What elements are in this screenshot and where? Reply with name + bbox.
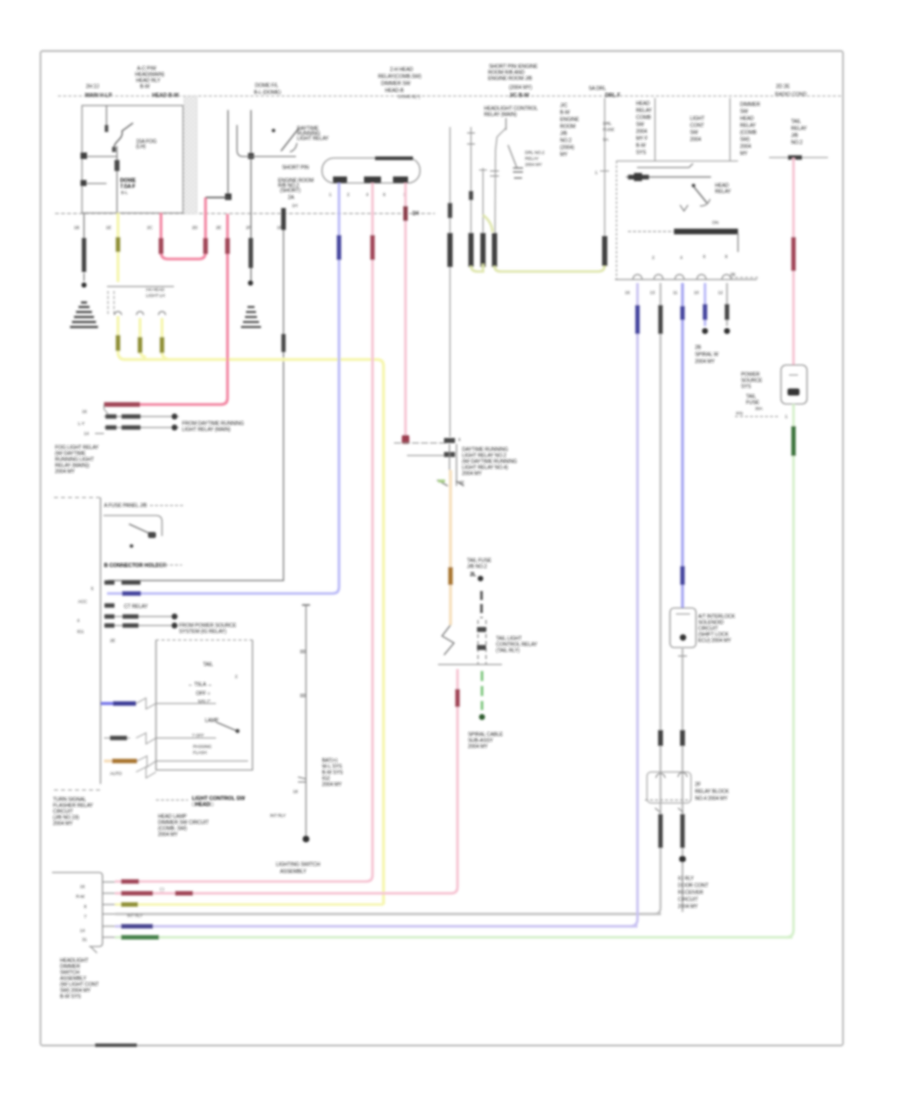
svg-text:2C: 2C xyxy=(147,225,152,230)
svg-text:2004 MY: 2004 MY xyxy=(55,469,75,475)
svg-text:NO.4 2004 MY: NO.4 2004 MY xyxy=(695,796,728,802)
svg-text:SPIRAL W: SPIRAL W xyxy=(695,352,719,358)
svg-text:HEAD: HEAD xyxy=(740,116,754,122)
svg-text:B-W: B-W xyxy=(140,84,150,90)
svg-text:2004 MY: 2004 MY xyxy=(678,904,698,910)
small connector on jog xyxy=(505,118,507,130)
row with dot (y=625.5) xyxy=(104,625,178,627)
row y=738 xyxy=(104,733,216,744)
relay pill component xyxy=(322,158,420,183)
svg-text:HEAD: HEAD xyxy=(636,101,650,107)
svg-text:DRL F: DRL F xyxy=(605,93,621,99)
svg-text:RELAY: RELAY xyxy=(740,123,757,129)
wire x=705 with dot xyxy=(704,283,707,326)
svg-text:J/C B-W: J/C B-W xyxy=(509,93,530,99)
wire xyxy=(250,110,252,285)
hatched junction strip xyxy=(184,96,197,214)
svg-text:2D: 2D xyxy=(192,225,197,230)
svg-text:ACC: ACC xyxy=(78,599,87,604)
svg-text:2E: 2E xyxy=(110,638,115,643)
svg-text:ENGINE ROOM J/B: ENGINE ROOM J/B xyxy=(488,76,533,82)
svg-text:18: 18 xyxy=(293,789,298,794)
wire inside fuse box xyxy=(106,106,108,127)
relay symbol in block xyxy=(104,516,163,537)
svg-text:DOME-B(+): DOME-B(+) xyxy=(398,94,421,99)
orange wire below connector xyxy=(449,470,452,625)
olive jog xyxy=(483,215,493,232)
svg-text:2004 MY: 2004 MY xyxy=(468,744,488,750)
svg-text:LIGHT: LIGHT xyxy=(690,116,705,122)
row6 green wire xyxy=(115,936,793,939)
svg-text:RELAY: RELAY xyxy=(715,189,732,195)
pink wire from relay pill pin6 xyxy=(404,183,407,438)
ground G2 xyxy=(248,280,253,285)
svg-text:R-W: R-W xyxy=(76,894,85,899)
svg-text:B-W: B-W xyxy=(636,143,646,149)
yellow wire from fuse box xyxy=(117,213,120,282)
svg-text:A FUSE PANEL J/B: A FUSE PANEL J/B xyxy=(104,503,148,509)
svg-text:2D 2E: 2D 2E xyxy=(776,84,790,90)
svg-text:IG1: IG1 xyxy=(77,629,84,634)
wire column x=450 xyxy=(449,127,451,437)
blue wire from relay pill pin2 xyxy=(107,183,339,594)
svg-text:PASSING: PASSING xyxy=(193,744,212,749)
svg-text:LIGHT RELAY (MAIN): LIGHT RELAY (MAIN) xyxy=(182,427,231,433)
ground G1 wire xyxy=(83,213,85,281)
svg-text:DIMMER SW: DIMMER SW xyxy=(381,81,411,87)
connector row 2 xyxy=(104,427,179,429)
svg-text:B-W SYS: B-W SYS xyxy=(60,994,82,1000)
svg-text:RELAY: RELAY xyxy=(636,108,653,114)
svg-text:LIGHT LH: LIGHT LH xyxy=(146,293,165,298)
fuse box (engine room R/B) outline xyxy=(82,106,183,214)
black jog wire xyxy=(225,194,232,201)
svg-text:14: 14 xyxy=(80,928,85,933)
fuse F1 symbol xyxy=(114,123,133,151)
svg-text:ENGINE: ENGINE xyxy=(560,117,580,123)
svg-text:RADIO COND: RADIO COND xyxy=(775,92,807,98)
svg-text:1B: 1B xyxy=(74,225,79,230)
svg-text:SYS: SYS xyxy=(741,384,752,390)
wire column x=471 xyxy=(470,127,472,267)
svg-text:DOME F/L: DOME F/L xyxy=(255,83,279,89)
svg-text:2004 MY: 2004 MY xyxy=(322,782,342,788)
dashed stub xyxy=(54,497,100,499)
small green mark xyxy=(438,480,445,483)
svg-text:2004: 2004 xyxy=(740,144,751,150)
svg-text:(SHORT): (SHORT) xyxy=(280,188,301,194)
tail fuse component box xyxy=(781,365,807,404)
DRL no.2 relay connector (middle) xyxy=(394,442,446,444)
svg-text:DOOR CONT: DOOR CONT xyxy=(678,883,708,889)
orange wire row into box xyxy=(104,760,137,763)
svg-text:5E: 5E xyxy=(459,480,464,485)
svg-text:DRL: DRL xyxy=(603,121,612,126)
svg-text:DIMMER: DIMMER xyxy=(740,102,760,108)
dashed under box xyxy=(54,789,101,791)
svg-text:RECEIVER: RECEIVER xyxy=(678,890,704,896)
svg-text:(LH): (LH) xyxy=(136,144,146,150)
svg-text:SW: SW xyxy=(740,109,748,115)
svg-text:(COMB: (COMB xyxy=(740,130,757,136)
wire column x=494 xyxy=(495,118,506,233)
svg-text:13: 13 xyxy=(650,290,655,295)
svg-text:OFF ○: OFF ○ xyxy=(196,691,210,697)
svg-text:16: 16 xyxy=(82,409,87,414)
svg-text:IG RLY: IG RLY xyxy=(678,876,694,882)
svg-text:L-Y: L-Y xyxy=(78,421,85,426)
svg-text:12: 12 xyxy=(718,290,723,295)
svg-text:AUTO: AUTO xyxy=(110,771,122,776)
svg-text:(2004): (2004) xyxy=(560,145,575,151)
green dashed wire with dot xyxy=(481,671,484,710)
switch arm xyxy=(692,184,696,188)
pin arcs on box bottom xyxy=(633,275,731,280)
upper left connector rows xyxy=(104,405,108,415)
pink wire from relay pill pin4 xyxy=(115,183,373,882)
svg-text:ROOM: ROOM xyxy=(560,124,575,130)
svg-text:N5LC: N5LC xyxy=(198,700,211,706)
svg-text:TAIL: TAIL xyxy=(791,119,801,125)
svg-text:2004 MY: 2004 MY xyxy=(695,359,715,365)
svg-text:B-L (DOME): B-L (DOME) xyxy=(254,90,281,96)
row3 yellow tail xyxy=(115,903,384,906)
svg-text:FUSE: FUSE xyxy=(603,127,614,132)
blue wire row into box xyxy=(101,702,136,705)
blue wire x=682 xyxy=(681,283,684,608)
svg-text:HEAD B-W: HEAD B-W xyxy=(152,93,180,99)
svg-text:2004 MY: 2004 MY xyxy=(158,832,178,838)
svg-text:SW: SW xyxy=(690,130,698,136)
svg-text:ASSEMBLY: ASSEMBLY xyxy=(280,869,307,875)
connector row 1 xyxy=(104,416,179,418)
svg-text:2-H HEAD: 2-H HEAD xyxy=(390,67,413,73)
svg-text:RELAY (MAIN): RELAY (MAIN) xyxy=(484,112,517,118)
wire (black) short pin down xyxy=(108,208,284,581)
svg-text:H4 HEAD: H4 HEAD xyxy=(146,287,164,292)
svg-text:2004: 2004 xyxy=(636,129,647,135)
svg-text:SHORT PIN: SHORT PIN xyxy=(282,165,309,171)
svg-text:2B: 2B xyxy=(730,272,735,277)
pink feed wire right xyxy=(769,157,828,159)
svg-text:FLASH: FLASH xyxy=(193,750,207,755)
row5 violet wire xyxy=(115,925,638,928)
svg-text:LIGHTING SWITCH: LIGHTING SWITCH xyxy=(276,862,320,868)
svg-text:CT RELAY: CT RELAY xyxy=(124,604,148,610)
svg-text:NO.2: NO.2 xyxy=(560,138,572,144)
ground symbol G1 xyxy=(70,303,98,328)
svg-text:B-L: B-L xyxy=(121,190,128,195)
svg-text:7 OFF: 7 OFF xyxy=(192,733,204,738)
svg-text:SYS: SYS xyxy=(636,150,647,156)
svg-text:(TAIL RLY): (TAIL RLY) xyxy=(496,648,520,654)
green wire down right xyxy=(786,404,794,937)
dashed bus line top (y=96) xyxy=(58,95,843,97)
combination switch box xyxy=(616,161,618,280)
wire node xyxy=(83,156,117,158)
svg-text:SW): SW) xyxy=(740,137,750,143)
headlight bulb pins xyxy=(115,312,166,315)
wire column x=483 xyxy=(482,168,484,233)
svg-text:J/B NO.2: J/B NO.2 xyxy=(467,564,487,570)
svg-text:11: 11 xyxy=(673,290,678,295)
svg-text:16: 16 xyxy=(625,290,630,295)
svg-text:2004 MY: 2004 MY xyxy=(53,821,73,827)
svg-text:J/B: J/B xyxy=(791,133,799,139)
svg-text:← T5LA →: ← T5LA → xyxy=(188,682,212,688)
pink U wire xyxy=(161,198,206,260)
svg-text:J/B: J/B xyxy=(560,131,568,137)
svg-text:( ): ( ) xyxy=(160,887,164,892)
svg-text:J/C: J/C xyxy=(560,103,568,109)
svg-text:LIGHT RELAY: LIGHT RELAY xyxy=(297,136,329,142)
junction block left vertical xyxy=(100,498,102,785)
svg-text:P/S: P/S xyxy=(736,411,743,416)
lighting switch box xyxy=(156,639,253,641)
internal bus 2 xyxy=(626,176,711,178)
row: black wire out (y=582.5) xyxy=(104,582,110,584)
svg-text:ECU) 2004 MY: ECU) 2004 MY xyxy=(698,638,732,644)
pin stubs xyxy=(103,882,116,937)
svg-text:2B: 2B xyxy=(695,345,702,351)
svg-text:B CONNECTOR HOLDER: B CONNECTOR HOLDER xyxy=(104,563,167,569)
page number label xyxy=(95,1044,137,1047)
svg-text:2004: 2004 xyxy=(690,137,701,143)
2F relay connector xyxy=(647,772,691,803)
wire x=727 with dot xyxy=(726,283,728,326)
gray below interlock xyxy=(682,648,684,913)
svg-text:1F: 1F xyxy=(277,225,282,230)
row4 gray wire xyxy=(115,913,661,915)
svg-text:2004 MY: 2004 MY xyxy=(462,471,482,477)
svg-text:30A: 30A xyxy=(755,406,763,411)
wire from dome fuse xyxy=(227,110,229,197)
svg-text:ON: ON xyxy=(712,220,718,225)
svg-text:16: 16 xyxy=(80,884,85,889)
svg-text:SYSTEM (IG RELAY): SYSTEM (IG RELAY) xyxy=(179,629,227,635)
daytime running light relay symbol xyxy=(237,125,296,157)
svg-text:RELAY: RELAY xyxy=(525,156,539,161)
svg-text:1H: 1H xyxy=(412,211,419,217)
battery wire x=306 xyxy=(305,605,307,840)
svg-text:CIRCUIT: CIRCUIT xyxy=(678,897,698,903)
row2 red wire xyxy=(115,669,458,893)
svg-text:14: 14 xyxy=(84,431,89,436)
pink wire to connector (x=227.5) xyxy=(104,214,228,405)
svg-text:MY F: MY F xyxy=(636,136,648,142)
tail switch component xyxy=(442,625,454,655)
olive wire merge to DRL fuse xyxy=(471,264,483,272)
dashes below dot xyxy=(480,591,483,618)
svg-text:31: 31 xyxy=(82,937,87,942)
short dashes label right box xyxy=(730,277,758,279)
gray wire x=660 xyxy=(654,283,661,914)
svg-text:TAIL: TAIL xyxy=(203,662,213,668)
svg-text:COMB: COMB xyxy=(636,115,652,121)
internal bus 1 xyxy=(637,164,693,168)
svg-text:DRL NO.2: DRL NO.2 xyxy=(525,150,545,155)
fuse F2 wire xyxy=(116,146,118,213)
yellow wires from headlight xyxy=(118,316,384,905)
svg-text:SW: SW xyxy=(636,122,644,128)
svg-text:2F: 2F xyxy=(246,225,251,230)
svg-text:□HEAD□: □HEAD□ xyxy=(192,802,214,808)
violet wire xyxy=(630,283,638,926)
bottom left connector xyxy=(52,873,103,947)
light control sw label xyxy=(156,799,188,801)
svg-text:10: 10 xyxy=(694,290,699,295)
svg-text:2F: 2F xyxy=(695,782,701,788)
svg-text:CONT: CONT xyxy=(690,123,704,129)
wire node xyxy=(83,183,107,185)
svg-text:(2004 MY): (2004 MY) xyxy=(509,85,532,91)
svg-text:MAIN H-LP: MAIN H-LP xyxy=(85,93,112,99)
svg-text:2L: 2L xyxy=(470,572,477,578)
headlight connector top xyxy=(107,286,174,288)
dashed bus line 2 (y=213.5) xyxy=(55,213,435,215)
interlock connector box xyxy=(670,608,696,648)
row: CT relay text xyxy=(105,603,115,607)
svg-text:NO.2: NO.2 xyxy=(791,140,803,146)
vertical stubs from dashed top xyxy=(654,98,656,161)
svg-text:2E: 2E xyxy=(216,225,221,230)
svg-text:RELAY BLOCK: RELAY BLOCK xyxy=(695,789,730,795)
svg-text:5A DRL: 5A DRL xyxy=(589,86,606,92)
svg-text:1H: 1H xyxy=(292,203,297,208)
svg-text:MY: MY xyxy=(560,152,568,158)
svg-text:INT RLY: INT RLY xyxy=(270,813,286,818)
svg-text:5A: 5A xyxy=(603,137,608,142)
svg-text:MY: MY xyxy=(740,151,748,157)
svg-text:2H 2J: 2H 2J xyxy=(86,84,99,90)
svg-text:RELAY: RELAY xyxy=(791,126,808,132)
svg-text:INT RLY: INT RLY xyxy=(127,913,143,918)
svg-text:2004 MY: 2004 MY xyxy=(525,162,542,167)
svg-text:1E: 1E xyxy=(106,225,111,230)
row with dot (y=616.5) xyxy=(104,616,178,618)
svg-text:2A: 2A xyxy=(288,195,295,201)
svg-text:RELAY(COMB.SW): RELAY(COMB.SW) xyxy=(378,74,422,80)
svg-text:B-W: B-W xyxy=(560,110,570,116)
